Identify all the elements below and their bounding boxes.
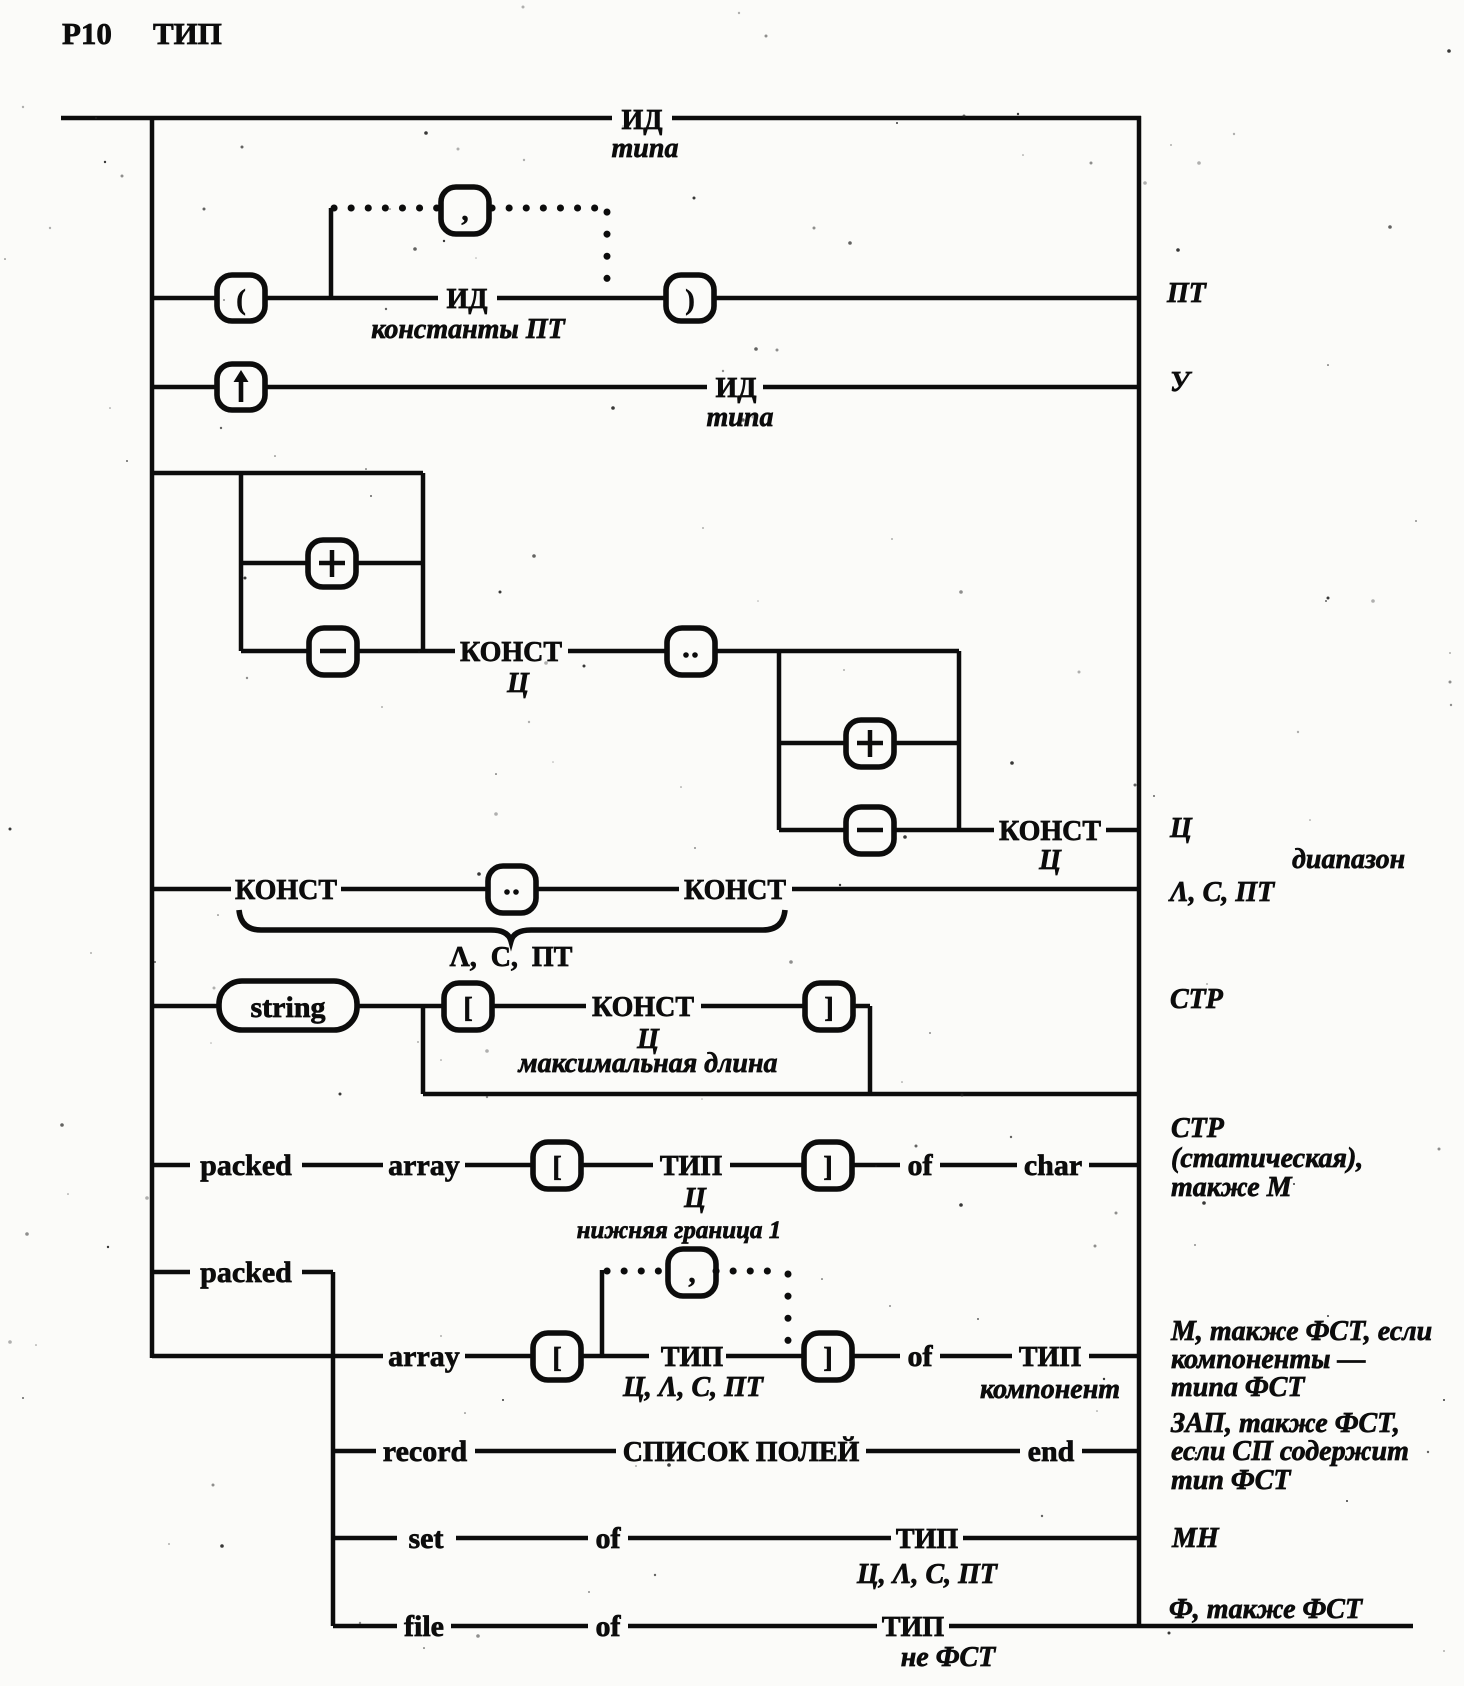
wire b12-d bbox=[949, 1624, 1413, 1629]
svg-text:компоненты —: компоненты — bbox=[1171, 1344, 1366, 1375]
node ТИП file bbox=[882, 1612, 997, 1673]
wire b5-a bbox=[152, 887, 231, 892]
label ЗАП также ФСТ bbox=[1170, 1408, 1409, 1496]
svg-text:типа: типа bbox=[612, 133, 679, 164]
wire b3-c bbox=[763, 385, 1139, 390]
svg-text:file: file bbox=[404, 1610, 444, 1643]
svg-text:record: record bbox=[383, 1435, 468, 1468]
wire b11-b bbox=[456, 1536, 588, 1541]
svg-text:[: [ bbox=[463, 993, 472, 1024]
svg-text:М, также ФСТ, если: М, также ФСТ, если bbox=[1170, 1316, 1432, 1347]
wire b7-c bbox=[465, 1163, 533, 1168]
branch file bbox=[333, 1624, 1413, 1629]
node open-bracket box 2 bbox=[533, 1142, 581, 1189]
svg-text:set: set bbox=[409, 1522, 444, 1555]
wire b4-entry bbox=[152, 471, 423, 476]
node open-bracket box 3 bbox=[533, 1333, 581, 1380]
wire b2-c bbox=[497, 296, 666, 301]
svg-text:СПИСОК ПОЛЕЙ: СПИСОК ПОЛЕЙ bbox=[623, 1437, 860, 1468]
svg-text:array: array bbox=[388, 1340, 460, 1373]
node КОНСТ Ц 2 bbox=[999, 816, 1101, 876]
wire b2-loop-stub bbox=[329, 208, 334, 298]
svg-text:У: У bbox=[1170, 367, 1193, 398]
wire b6-e bbox=[853, 1004, 870, 1009]
wire b8-a bbox=[152, 1270, 190, 1275]
wire b4-minus2-row bbox=[779, 828, 846, 833]
wire b6-a bbox=[152, 1004, 219, 1009]
node comma-box b2 bbox=[441, 187, 489, 234]
wire b4-exit bbox=[1106, 828, 1139, 833]
wire b5-b bbox=[341, 887, 488, 892]
svg-text:of: of bbox=[596, 1522, 622, 1555]
svg-text:КОНСТ: КОНСТ bbox=[592, 992, 694, 1023]
svg-text:типа: типа bbox=[707, 402, 774, 433]
svg-text:of: of bbox=[908, 1340, 934, 1373]
node minus box 1 bbox=[309, 628, 357, 675]
branch array 2 bbox=[333, 1270, 1139, 1356]
wire b4-to-box2 bbox=[715, 649, 959, 654]
label М также ФСТ если bbox=[1170, 1316, 1432, 1403]
wire b11-d bbox=[963, 1536, 1139, 1541]
svg-text:тип ФСТ: тип ФСТ bbox=[1171, 1465, 1292, 1496]
wire b7-d bbox=[581, 1163, 653, 1168]
svg-text:ТИП: ТИП bbox=[660, 1151, 722, 1182]
wire b9-d bbox=[726, 1354, 804, 1359]
node close-paren box bbox=[666, 275, 714, 321]
wire b7-a bbox=[152, 1163, 190, 1168]
svg-text:array: array bbox=[388, 1149, 460, 1182]
wire b6-c bbox=[492, 1004, 586, 1009]
node up-arrow box bbox=[217, 364, 265, 410]
wire b7-f bbox=[852, 1163, 900, 1168]
svg-text:ИД: ИД bbox=[446, 284, 487, 315]
svg-text:Ц, Λ, С, ПТ: Ц, Λ, С, ПТ bbox=[622, 1372, 765, 1403]
svg-text:ИД: ИД bbox=[715, 373, 756, 404]
wire b9-a bbox=[333, 1354, 383, 1359]
node plus box 2 bbox=[846, 720, 894, 767]
svg-text:Ц, Λ, С, ПТ: Ц, Λ, С, ПТ bbox=[856, 1559, 999, 1590]
wire b9-loop-dotted-right bbox=[716, 1268, 778, 1275]
svg-text:char: char bbox=[1024, 1149, 1082, 1182]
wire b9-b bbox=[465, 1354, 533, 1359]
svg-text:Λ, С, ПТ: Λ, С, ПТ bbox=[450, 942, 573, 973]
wire b7-b bbox=[302, 1163, 383, 1168]
wire b10-b bbox=[475, 1449, 616, 1454]
wire b8-bypass bbox=[152, 1354, 333, 1359]
svg-text:]: ] bbox=[823, 1343, 832, 1374]
wire b4-v2right bbox=[957, 651, 962, 830]
wire b9-e bbox=[852, 1354, 900, 1359]
branch set bbox=[333, 1536, 1139, 1541]
svg-text:of: of bbox=[908, 1149, 934, 1182]
svg-text:ТИП: ТИП bbox=[1019, 1342, 1081, 1373]
node ИД типа bbox=[612, 105, 679, 164]
node string box bbox=[219, 981, 357, 1030]
wire b6-b bbox=[357, 1004, 444, 1009]
node close-bracket box 3 bbox=[804, 1333, 852, 1380]
branch packed array char bbox=[152, 1163, 1139, 1168]
svg-text:ПТ: ПТ bbox=[1166, 278, 1208, 309]
node КОНСТ Ц 1 bbox=[460, 637, 562, 699]
wire b5-d bbox=[792, 887, 1139, 892]
branch record bbox=[333, 1449, 1139, 1454]
wire b7-e bbox=[730, 1163, 804, 1168]
wire b11-c bbox=[628, 1536, 891, 1541]
wire b2-a bbox=[152, 296, 217, 301]
wire b6-bypass-vleft bbox=[421, 1006, 426, 1094]
svg-text:типа ФСТ: типа ФСТ bbox=[1171, 1372, 1306, 1403]
svg-text:нижняя граница 1: нижняя граница 1 bbox=[577, 1217, 782, 1244]
branch Ц diapason bbox=[152, 473, 1139, 830]
wire b10-c bbox=[866, 1449, 1020, 1454]
svg-text:]: ] bbox=[824, 993, 833, 1024]
svg-text:также М: также М bbox=[1171, 1172, 1293, 1203]
svg-text:ТИП: ТИП bbox=[661, 1342, 723, 1373]
wire top-exit bbox=[672, 116, 1141, 121]
svg-text:Ц: Ц bbox=[506, 668, 530, 699]
node ТИП Ц нижняя граница bbox=[577, 1151, 782, 1244]
svg-text:КОНСТ: КОНСТ bbox=[684, 875, 786, 906]
wire b4-plus-row2 bbox=[356, 561, 423, 566]
node ИД типа b3 bbox=[707, 373, 774, 433]
wire b12-a bbox=[333, 1624, 397, 1629]
wire b9-loop-dotted-down bbox=[785, 1274, 792, 1345]
wire b5-c bbox=[536, 887, 679, 892]
wire b10-d bbox=[1082, 1449, 1139, 1454]
wire b4-minus-row bbox=[241, 649, 309, 654]
wire b4-vleft bbox=[239, 473, 244, 651]
wire b2-b bbox=[265, 296, 438, 301]
svg-text:КОНСТ: КОНСТ bbox=[235, 875, 337, 906]
svg-text:ТИП: ТИП bbox=[896, 1524, 958, 1555]
wire left-rail bbox=[150, 116, 155, 1358]
branch packed 2 bbox=[152, 1272, 333, 1626]
wire b9-f bbox=[940, 1354, 1012, 1359]
svg-text:диапазон: диапазон bbox=[1292, 844, 1405, 875]
wire right-rail bbox=[1137, 116, 1142, 1626]
svg-text:СТР: СТР bbox=[1170, 984, 1224, 1015]
branch У bbox=[152, 385, 1139, 390]
wire b4-minus-row2 bbox=[357, 649, 455, 654]
wire b9-g bbox=[1089, 1354, 1139, 1359]
wire b6-d bbox=[701, 1004, 805, 1009]
node ТИП Ц Λ С ПТ bbox=[622, 1342, 765, 1403]
wire b7-g bbox=[940, 1163, 1017, 1168]
svg-text:packed: packed bbox=[200, 1149, 292, 1182]
svg-text:константы ПТ: константы ПТ bbox=[371, 314, 566, 345]
wire b4-plus2-row bbox=[779, 741, 846, 746]
node КОНСТ Ц макс длина bbox=[518, 992, 778, 1079]
wire b3-b bbox=[265, 385, 707, 390]
wire b2-d bbox=[714, 296, 1139, 301]
svg-text:ЗАП, также ФСТ,: ЗАП, также ФСТ, bbox=[1170, 1408, 1400, 1439]
wire b9-c bbox=[581, 1354, 649, 1359]
wire b12-c bbox=[628, 1624, 877, 1629]
node minus box 2 bbox=[846, 807, 894, 854]
wire b2-loop-dotted-right bbox=[492, 205, 607, 212]
svg-text:ТИП: ТИП bbox=[882, 1612, 944, 1643]
underbrace bbox=[239, 910, 785, 941]
wire b2-loop-dotted-left bbox=[334, 205, 441, 212]
svg-text:]: ] bbox=[823, 1152, 832, 1183]
svg-text:[: [ bbox=[552, 1152, 561, 1183]
svg-text:): ) bbox=[685, 285, 694, 316]
svg-text:не ФСТ: не ФСТ bbox=[901, 1642, 997, 1673]
wire b2-loop-dotted-down bbox=[604, 212, 611, 292]
svg-text:Ц: Ц bbox=[1038, 845, 1062, 876]
svg-text:(статическая),: (статическая), bbox=[1171, 1143, 1363, 1174]
svg-text:end: end bbox=[1028, 1435, 1075, 1468]
node comma-box b9 bbox=[668, 1249, 716, 1296]
svg-text:Ф, также ФСТ: Ф, также ФСТ bbox=[1169, 1594, 1364, 1625]
svg-text:КОНСТ: КОНСТ bbox=[999, 816, 1101, 847]
svg-text:Λ, С, ПТ: Λ, С, ПТ bbox=[1168, 877, 1276, 908]
wire b11-a bbox=[333, 1536, 397, 1541]
wire b4-plus-row bbox=[241, 561, 308, 566]
node ТИП set bbox=[856, 1524, 999, 1590]
wire b6-bypass-vright bbox=[868, 1006, 873, 1094]
node close-bracket box 1 bbox=[805, 983, 853, 1030]
wire b9-loop-dotted-left bbox=[607, 1268, 668, 1275]
wire b4-v2left bbox=[777, 651, 782, 830]
branch ПТ bbox=[152, 208, 1139, 298]
wire b8-inner-rail bbox=[331, 1272, 336, 1626]
branch СТР string bbox=[152, 1006, 1139, 1094]
svg-text:СТР: СТР bbox=[1171, 1113, 1225, 1144]
node open-bracket box 1 bbox=[444, 983, 492, 1030]
svg-text:компонент: компонент bbox=[980, 1374, 1120, 1405]
wire b4-vright bbox=[421, 473, 426, 651]
wire b7-h bbox=[1089, 1163, 1139, 1168]
svg-text:если СП содержит: если СП содержит bbox=[1171, 1436, 1409, 1467]
svg-text:(: ( bbox=[236, 285, 245, 316]
wire top-entry bbox=[61, 116, 612, 121]
svg-text:ИД: ИД bbox=[621, 105, 662, 136]
wire b12-b bbox=[451, 1624, 588, 1629]
node ТИП компонент bbox=[980, 1342, 1120, 1405]
svg-text:string: string bbox=[251, 991, 326, 1024]
node dotdot box 1 bbox=[667, 628, 715, 675]
svg-text:максимальная длина: максимальная длина bbox=[518, 1048, 778, 1079]
svg-text:,: , bbox=[689, 1258, 696, 1289]
wire b9-loop-stub bbox=[600, 1270, 605, 1356]
svg-text:of: of bbox=[596, 1610, 622, 1643]
svg-text:,: , bbox=[462, 196, 469, 227]
wire b4-konst-dots bbox=[568, 649, 667, 654]
node dotdot box 2 bbox=[488, 866, 536, 913]
svg-text:Ц: Ц bbox=[683, 1183, 707, 1214]
svg-text:[: [ bbox=[552, 1343, 561, 1374]
wire b3-a bbox=[152, 385, 217, 390]
branch range Λ С ПТ bbox=[152, 887, 1139, 892]
label СТР статическая также М bbox=[1171, 1113, 1363, 1203]
svg-text:Ц: Ц bbox=[1169, 813, 1193, 844]
node ИД константы ПТ bbox=[371, 284, 566, 345]
wire b10-a bbox=[333, 1449, 376, 1454]
node close-bracket box 2 bbox=[804, 1142, 852, 1189]
svg-text:ТИП: ТИП bbox=[153, 16, 222, 51]
svg-text:Р10: Р10 bbox=[62, 16, 112, 51]
svg-text:packed: packed bbox=[200, 1256, 292, 1289]
heading Р10 ТИП bbox=[62, 16, 222, 51]
wire b4-plus2-row2 bbox=[894, 741, 959, 746]
node plus box 1 bbox=[308, 540, 356, 587]
svg-text:МН: МН bbox=[1171, 1523, 1220, 1554]
wire b4-minus2-row2 bbox=[894, 828, 994, 833]
node open-paren box bbox=[217, 275, 265, 321]
wire b8-b bbox=[302, 1270, 333, 1275]
wire b6-bypass-h bbox=[423, 1092, 1139, 1097]
